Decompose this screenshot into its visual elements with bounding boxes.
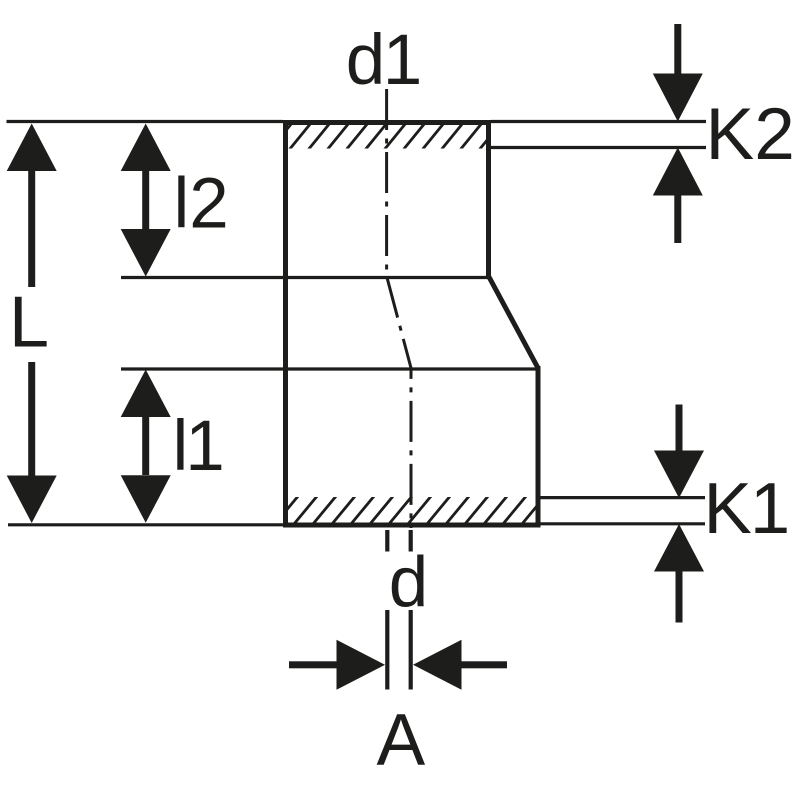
l2 lower reference line <box>121 276 488 279</box>
svg-text:l2: l2 <box>174 165 229 244</box>
dimension K2 arrows <box>653 24 703 243</box>
extension line below body, right (d axis) <box>409 530 413 690</box>
svg-text:K2: K2 <box>706 94 795 175</box>
top reference line right (K2 upper) <box>491 120 706 123</box>
label d1 <box>346 21 420 100</box>
extension line below body, left (d1 axis) <box>385 530 389 690</box>
label d <box>389 544 429 623</box>
dimension L arrows <box>7 124 57 524</box>
svg-text:l1: l1 <box>173 407 223 486</box>
svg-text:d1: d1 <box>346 21 420 100</box>
dimension K1 arrows <box>654 405 704 623</box>
K1 lower reference line <box>541 522 706 525</box>
svg-text:A: A <box>377 700 426 781</box>
K1 upper reference line <box>540 496 705 499</box>
svg-text:L: L <box>9 283 49 363</box>
dimension l1 arrows <box>121 370 171 523</box>
hatch band bottom (weld zone d) <box>275 495 546 524</box>
dimension A arrows <box>289 640 507 690</box>
l1 upper reference line <box>121 367 537 370</box>
dimension l2 arrows <box>121 124 171 277</box>
svg-text:d: d <box>389 544 429 623</box>
label A <box>377 700 426 781</box>
reducer body outline <box>283 120 541 528</box>
K2 lower reference line <box>491 146 706 149</box>
hatch band top (weld zone d1) <box>270 123 501 150</box>
label L <box>9 283 49 363</box>
label l1 <box>173 407 223 486</box>
label K1 <box>704 468 789 549</box>
svg-text:K1: K1 <box>704 468 789 549</box>
bottom reference line left <box>8 523 283 526</box>
top reference line left <box>7 120 284 123</box>
label K2 <box>706 94 795 175</box>
label l2 <box>174 165 229 244</box>
centerline d1 (dash-dot) <box>387 89 411 528</box>
